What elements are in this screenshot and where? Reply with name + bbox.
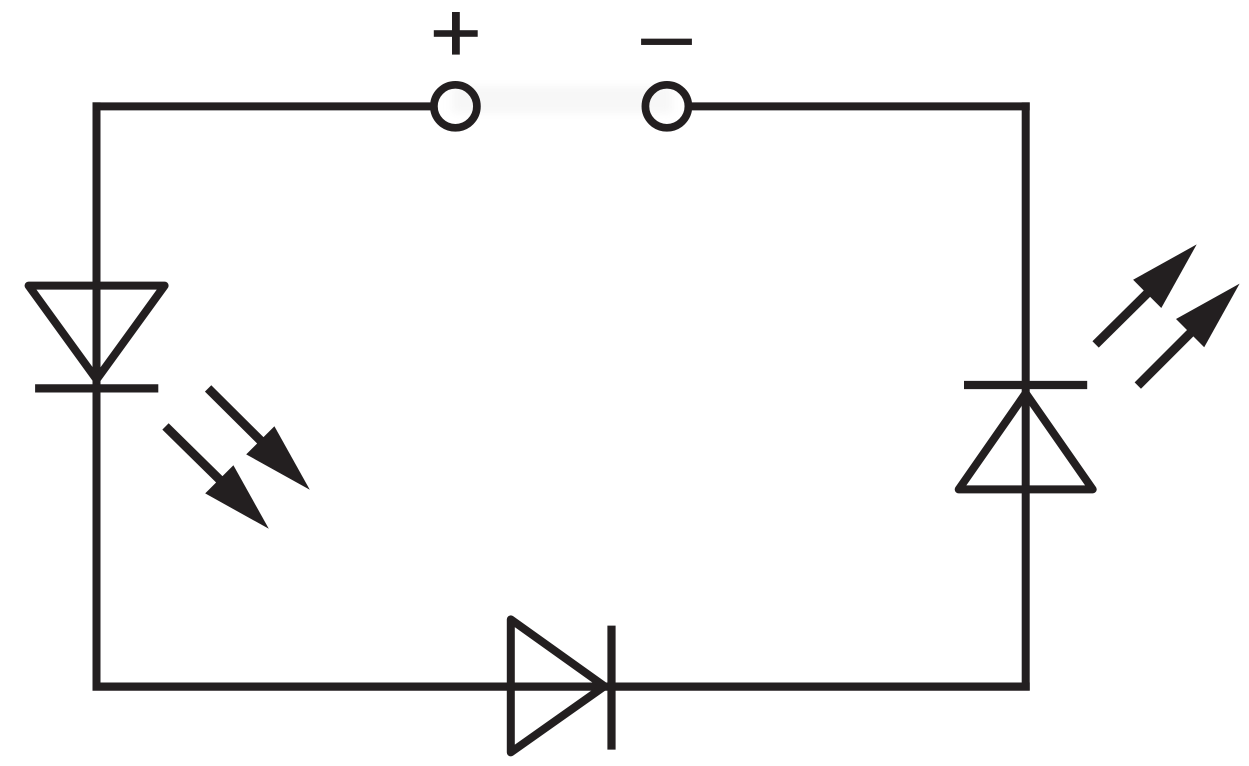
LED D1 triangle [29,286,165,380]
battery negative terminal circle [645,85,688,128]
LED D2 emission arrow 2 [1138,284,1240,386]
LED D1 emission arrow 1 [208,388,310,489]
wire left side [93,102,101,690]
LED D2 emission arrow 1 [1096,244,1197,344]
LED D2 triangle [959,393,1093,489]
plus label [434,12,478,55]
wire top left segment [93,102,431,110]
minus label [641,39,692,45]
diode D3 cathode bar [607,626,615,750]
wire top right segment [692,102,1030,110]
diode D3 triangle [511,619,605,752]
LED D1 emission arrow 2 [166,426,269,528]
wire right side [1022,102,1030,690]
LED D1 cathode bar [35,384,158,392]
LED D2 cathode bar [964,381,1087,389]
battery positive terminal circle [434,85,477,128]
wire bottom [93,682,1030,690]
